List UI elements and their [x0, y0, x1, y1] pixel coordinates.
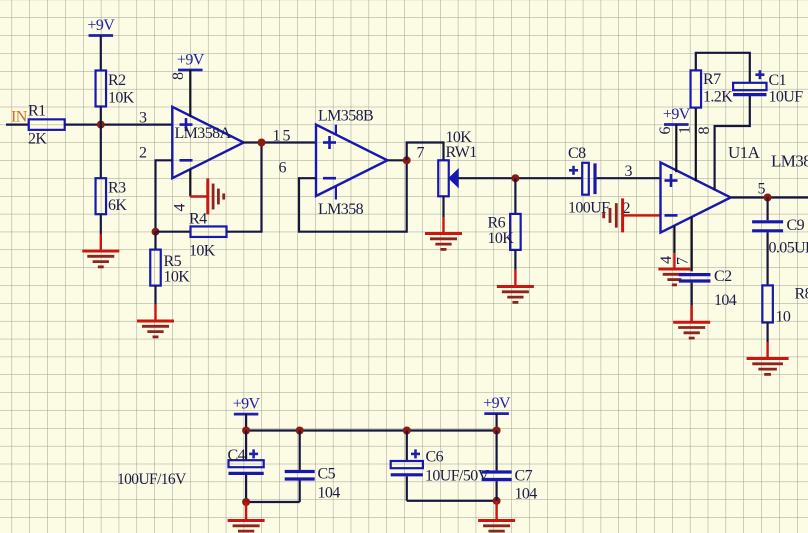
- capacitor C2: [679, 275, 711, 281]
- junction node D: [403, 156, 411, 164]
- capacitor C6: [391, 449, 423, 474]
- wire R8 to ground: [766, 323, 768, 343]
- wire C6-C7 ground bus: [407, 500, 497, 502]
- svg-text:100UF/16V: 100UF/16V: [117, 471, 187, 488]
- wire node B to R4: [156, 231, 191, 233]
- svg-text:3: 3: [139, 110, 147, 127]
- power +9V VCC4: [233, 396, 261, 431]
- resistor R5: [150, 250, 161, 286]
- svg-text:C6: C6: [426, 449, 444, 466]
- junction gnd bus node: [242, 498, 250, 506]
- ground GND C2: [673, 306, 710, 339]
- svg-text:R8: R8: [795, 286, 808, 303]
- junction rail node C7: [493, 427, 501, 435]
- wire power rail: [246, 429, 497, 431]
- pin stub bottom of U3: [335, 186, 337, 200]
- wire node A to R3: [100, 125, 102, 179]
- pin stub top of U3: [335, 125, 337, 135]
- junction rail node C4: [242, 427, 250, 435]
- svg-text:C1: C1: [769, 72, 787, 89]
- resistor R3: [96, 178, 107, 214]
- op-amp U2A LM358A: [172, 107, 243, 178]
- wire pin 2 feedback: [156, 160, 173, 231]
- svg-text:6: 6: [657, 127, 674, 135]
- wire R4 to output node: [227, 143, 262, 232]
- svg-text:R5: R5: [164, 253, 182, 270]
- capacitor C8: [569, 163, 595, 195]
- resistor R6: [510, 214, 521, 250]
- ground PGND U1A pin2: [604, 198, 661, 232]
- wire pin 4 stem: [673, 226, 675, 253]
- wire node F to C9: [766, 198, 768, 221]
- wire C9 to R8: [766, 232, 768, 285]
- ground PGND U2A pin4: [190, 179, 223, 215]
- wire node B to R5: [154, 232, 156, 250]
- wire R7 to pin 1: [695, 108, 697, 181]
- svg-text:R7: R7: [703, 71, 721, 88]
- wire pin 6 stem: [675, 125, 677, 173]
- wire pin 8 stem: [189, 70, 191, 117]
- wire RW1 to ground: [442, 196, 444, 217]
- ground GND R6: [497, 270, 534, 303]
- svg-text:U1A: U1A: [728, 143, 761, 162]
- power +9V VCC5: [483, 395, 511, 430]
- capacitor C7: [482, 472, 512, 480]
- svg-text:3: 3: [625, 163, 633, 180]
- svg-text:5: 5: [283, 128, 291, 145]
- svg-text:+9V: +9V: [177, 52, 205, 69]
- svg-text:C4: C4: [228, 447, 246, 464]
- svg-text:104: 104: [714, 292, 737, 309]
- svg-text:10K: 10K: [189, 243, 216, 260]
- junction node E: [511, 174, 519, 182]
- svg-text:10K: 10K: [488, 230, 515, 247]
- svg-text:104: 104: [515, 486, 538, 503]
- svg-text:1: 1: [273, 128, 281, 145]
- ground GND R5: [137, 304, 174, 337]
- svg-text:R1: R1: [28, 103, 46, 120]
- power +9V VCC1: [87, 17, 115, 71]
- capacitor C9: [752, 222, 783, 231]
- resistor R8: [762, 285, 773, 322]
- junction rail node C5: [296, 427, 304, 435]
- svg-text:+9V: +9V: [233, 396, 261, 413]
- svg-text:LM358A: LM358A: [175, 125, 232, 142]
- junction gnd bus node 2: [493, 497, 501, 505]
- wire rail to C5: [299, 431, 301, 470]
- svg-text:+9V: +9V: [483, 395, 511, 412]
- wire rail to C6: [406, 431, 408, 462]
- ground GND RW1: [425, 217, 462, 249]
- svg-text:C7: C7: [515, 468, 533, 485]
- wire node A to pin 3: [101, 123, 173, 125]
- junction node A: [97, 121, 105, 129]
- svg-text:R3: R3: [108, 180, 126, 197]
- svg-text:R6: R6: [488, 215, 506, 232]
- capacitor C5: [285, 472, 315, 480]
- svg-text:5: 5: [758, 181, 766, 198]
- svg-text:10: 10: [776, 309, 791, 326]
- power +9V VCC3: [663, 106, 691, 125]
- svg-text:C5: C5: [318, 466, 336, 483]
- capacitor C1: [733, 70, 766, 94]
- op-amp U1A LM386: [661, 162, 731, 232]
- svg-text:C8: C8: [568, 145, 586, 162]
- junction node F: [764, 194, 772, 202]
- wire R2 to node A: [100, 107, 102, 125]
- resistor R4: [191, 226, 227, 237]
- wire pin 4 stem: [189, 169, 191, 197]
- svg-text:LM358B: LM358B: [318, 108, 373, 125]
- wire rail to C4: [245, 431, 247, 461]
- svg-text:8: 8: [170, 72, 187, 80]
- wire U2A output: [244, 141, 316, 143]
- svg-text:1: 1: [676, 126, 693, 134]
- wire C7 to gnd bus: [496, 481, 498, 501]
- svg-text:1.2K: 1.2K: [703, 89, 733, 106]
- wire C4-C5 ground bus: [246, 501, 300, 503]
- ground GND C7: [478, 501, 515, 533]
- svg-text:C2: C2: [714, 268, 732, 285]
- svg-text:6K: 6K: [108, 197, 127, 214]
- svg-text:IN: IN: [11, 109, 28, 126]
- svg-text:4: 4: [658, 256, 675, 264]
- wire C4 to gnd bus: [245, 475, 247, 502]
- svg-text:+9V: +9V: [663, 106, 691, 123]
- wire node D to RW1: [407, 143, 444, 161]
- wire R6 to ground: [514, 250, 516, 270]
- wire wiper to node E: [458, 177, 582, 179]
- wire R1 to node A: [65, 123, 101, 125]
- wire C1 to pin 8: [715, 96, 750, 191]
- resistor RW1: [438, 160, 449, 196]
- wire pin 7 stem: [691, 217, 693, 271]
- wire R3 to ground: [100, 214, 102, 234]
- svg-text:7: 7: [417, 145, 425, 162]
- wire C6 to gnd bus: [406, 476, 408, 500]
- svg-text:10K: 10K: [108, 90, 135, 107]
- capacitor C4: [229, 449, 264, 473]
- wire pin 6 feedback: [299, 160, 407, 231]
- svg-text:R2: R2: [108, 72, 126, 89]
- wire node E to R6: [514, 178, 516, 214]
- wire C2 to ground: [691, 283, 693, 306]
- wire R5 to ground: [154, 286, 156, 304]
- wire U1A output: [731, 196, 808, 198]
- svg-text:10UF: 10UF: [769, 89, 804, 106]
- svg-text:RW1: RW1: [446, 144, 478, 161]
- ground GND R3: [82, 234, 119, 267]
- svg-text:104: 104: [318, 485, 341, 502]
- svg-text:0.05UF: 0.05UF: [769, 240, 808, 257]
- svg-text:LM386: LM386: [771, 152, 808, 171]
- wire rail to C7: [496, 431, 498, 471]
- svg-text:2: 2: [139, 145, 147, 162]
- svg-text:6: 6: [279, 160, 287, 177]
- wire C8 to pin 3: [597, 177, 661, 179]
- svg-text:10K: 10K: [164, 269, 191, 286]
- power +9V VCC2: [177, 52, 205, 71]
- resistor R1: [29, 119, 65, 130]
- op-amp U3 LM358B: [316, 125, 387, 196]
- svg-text:2K: 2K: [28, 131, 47, 148]
- wire R7 top link: [696, 53, 750, 83]
- junction node C: [258, 139, 266, 147]
- svg-text:+9V: +9V: [87, 17, 115, 34]
- ground GND U1A pin4: [658, 253, 690, 285]
- resistor R2: [96, 71, 107, 107]
- svg-text:R4: R4: [189, 211, 207, 228]
- svg-text:7: 7: [674, 257, 691, 265]
- junction node B: [152, 228, 160, 236]
- ground GND R8: [747, 342, 789, 374]
- wire C5 to gnd bus: [299, 481, 301, 503]
- wire U3 output: [387, 159, 406, 161]
- svg-text:C9: C9: [787, 217, 805, 234]
- wiper arrow of RW1: [449, 169, 458, 187]
- svg-text:LM358: LM358: [318, 201, 364, 218]
- wire input to R1: [6, 123, 29, 125]
- ground GND C4: [228, 502, 265, 533]
- resistor R7: [691, 70, 702, 107]
- junction rail node C6: [403, 427, 411, 435]
- svg-text:10UF/50V: 10UF/50V: [425, 468, 490, 485]
- svg-text:4: 4: [172, 204, 189, 212]
- svg-text:8: 8: [696, 127, 713, 135]
